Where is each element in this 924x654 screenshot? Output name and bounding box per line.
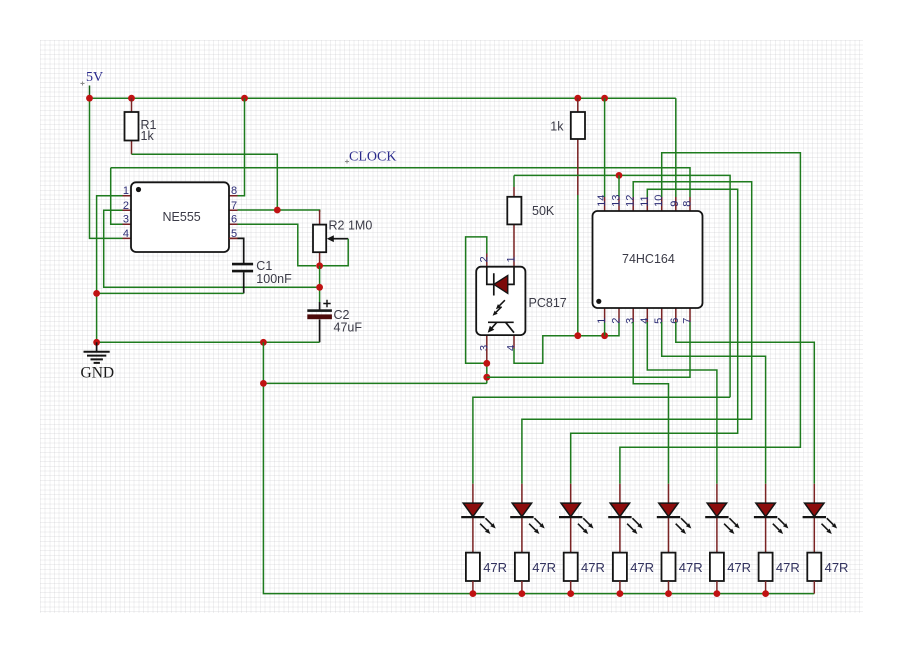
wire Q4 pin10 to LED4 column	[620, 153, 801, 484]
svg-text:47R: 47R	[776, 560, 800, 575]
wire 74HC164 pin7 GND	[487, 322, 690, 377]
svg-text:5: 5	[653, 318, 665, 324]
svg-text:1: 1	[506, 256, 518, 262]
node junction rail-R1	[128, 95, 135, 102]
node junction GND / bottom drop	[260, 339, 267, 346]
svg-text:1: 1	[123, 185, 129, 197]
svg-text:2: 2	[611, 318, 623, 324]
svg-text:47R: 47R	[825, 560, 849, 575]
resistor R9 47R	[662, 553, 703, 594]
svg-text:13: 13	[611, 195, 623, 207]
wire PC817 pin2 loop to emitter	[466, 237, 487, 363]
node junction input/pin1	[601, 332, 608, 339]
wire 5V top rail	[90, 97, 676, 99]
wire 50K top to 74HC164 pin13 and V1	[514, 175, 730, 397]
node junction return rail 3	[567, 590, 574, 597]
wire 74HC164 pin1 stub down	[604, 322, 606, 336]
capacitor C2 47uF electrolytic	[307, 300, 362, 343]
label CLOCK	[345, 150, 396, 165]
node junction pin3/74HC164 GND	[483, 374, 490, 381]
wire PC817 pin3 to GND net	[486, 349, 488, 364]
svg-text:47uF: 47uF	[334, 321, 363, 335]
wire 74HC164 pin14 up to rail	[604, 98, 606, 197]
shift register U3 74HC164	[593, 195, 703, 324]
optocoupler U2 PC817	[476, 254, 567, 352]
svg-text:3: 3	[123, 214, 129, 226]
node junction rail-5V	[86, 95, 93, 102]
node junction return rail 6	[714, 590, 721, 597]
wire R2 bottom to C2	[319, 266, 321, 302]
wire NE555 pin2 down-around to R2 bottom net	[104, 210, 320, 287]
op-amp U1 NE555 timer	[123, 182, 238, 252]
node junction return rail 4	[617, 590, 624, 597]
svg-text:50K: 50K	[532, 204, 555, 218]
capacitor C1 100nF	[229, 238, 292, 293]
LED D4	[608, 484, 643, 553]
svg-text:C1: C1	[256, 259, 272, 273]
LED D5	[657, 484, 692, 553]
svg-text:8: 8	[682, 201, 694, 207]
svg-text:47R: 47R	[727, 560, 751, 575]
node junction pin7/R1/R2	[274, 207, 281, 214]
node junction rail-NE555 pin8	[241, 95, 248, 102]
svg-text:11: 11	[639, 195, 651, 206]
svg-text:3: 3	[478, 345, 490, 351]
resistor R6 47R	[515, 553, 556, 594]
node junction rail-74HC164 pin14	[601, 95, 608, 102]
wire Q5 pin11 to LED3 column	[571, 189, 738, 484]
svg-text:7: 7	[682, 318, 694, 324]
wire NE555 pin3 to CLOCK	[111, 168, 123, 224]
svg-text:47R: 47R	[630, 560, 654, 575]
svg-text:100nF: 100nF	[256, 272, 292, 286]
wire GND drop to LED return rail	[263, 342, 814, 593]
wire Q2 pin5 to LED7 column	[662, 322, 766, 484]
resistor R12 47R	[807, 553, 848, 594]
wire Q3 pin6 to LED8 column	[676, 322, 815, 484]
wire NE555 pin7 to R2 top	[238, 210, 320, 212]
node junction return rail 5	[665, 590, 672, 597]
node junction return rail 1	[470, 590, 477, 597]
node junction return rail 2	[519, 590, 526, 597]
svg-text:1k: 1k	[550, 120, 564, 134]
svg-text:9: 9	[669, 201, 681, 207]
wire 5V left drop to NE555 pin4	[90, 98, 123, 238]
node junction return rail 7	[762, 590, 769, 597]
node junction GND vertical / C1 line	[93, 290, 100, 297]
svg-text:47R: 47R	[581, 560, 605, 575]
wire GND branch to PC817	[263, 382, 486, 384]
svg-text:47R: 47R	[483, 560, 507, 575]
LED D2	[510, 484, 545, 553]
wire 74HC164 pin13 stub up	[618, 175, 620, 197]
node junction rail-1k	[574, 95, 581, 102]
svg-text:47R: 47R	[679, 560, 703, 575]
svg-text:5V: 5V	[86, 70, 103, 85]
LED D7	[754, 484, 789, 553]
resistor R7 47R	[564, 553, 605, 594]
svg-text:1: 1	[596, 318, 608, 324]
svg-text:PC817: PC817	[529, 296, 567, 310]
wire GND to C1 bottom	[97, 292, 244, 294]
svg-text:12: 12	[625, 195, 637, 207]
svg-text:8: 8	[231, 185, 237, 197]
wire GND rail horizontal	[97, 341, 320, 343]
node junction pin3/pin2	[483, 360, 490, 367]
LED D1	[461, 484, 496, 553]
svg-text:10: 10	[653, 195, 665, 207]
svg-text:1k: 1k	[141, 129, 155, 143]
emission arrows of PC817	[493, 300, 505, 316]
ground symbol	[81, 342, 115, 381]
potentiometer R2 1M0	[313, 210, 372, 266]
svg-text:47R: 47R	[532, 560, 556, 575]
resistor R3 1k (top middle)	[550, 98, 585, 195]
svg-text:4: 4	[506, 345, 518, 351]
svg-text:6: 6	[231, 214, 237, 226]
wire CLOCK line to 74HC164 pin8	[111, 168, 690, 197]
svg-text:CLOCK: CLOCK	[349, 150, 396, 165]
node junction R2 bottom	[316, 262, 323, 269]
LED D3	[559, 484, 594, 553]
svg-text:4: 4	[123, 228, 129, 240]
svg-text:6: 6	[669, 318, 681, 324]
wire Q1 pin4 to LED6 column	[647, 322, 717, 484]
wire NE555 pin1 to GND vertical	[97, 196, 123, 343]
svg-text:NE555: NE555	[163, 210, 201, 224]
node junction GND branch	[260, 380, 267, 387]
wire Q7 net to LED1 column	[473, 397, 730, 484]
wire Q6 pin12 to LED2 column	[522, 182, 752, 484]
node junction input/1k	[574, 332, 581, 339]
wire Q0 pin3 to LED5 column	[633, 322, 668, 484]
wire 1k bottom to input net	[577, 195, 579, 336]
internal LED of PC817	[487, 267, 514, 296]
phototransistor of PC817	[488, 321, 514, 323]
svg-text:74HC164: 74HC164	[622, 252, 675, 266]
resistor R1 1k	[125, 98, 157, 154]
wire NE555 pin6 loop to R2 bottom	[238, 224, 317, 266]
svg-text:3: 3	[625, 318, 637, 324]
wire R1 bottom to pin7 net	[132, 154, 278, 210]
resistor R8 47R	[613, 553, 654, 594]
power terminal 5V	[81, 70, 104, 98]
svg-text:GND: GND	[81, 365, 115, 382]
resistor R4 50K	[507, 175, 555, 266]
svg-text:2: 2	[478, 256, 490, 262]
svg-text:14: 14	[596, 195, 608, 207]
svg-text:4: 4	[639, 318, 651, 324]
svg-text:2: 2	[123, 200, 129, 212]
wire rail to 74HC164 pin9	[675, 98, 677, 197]
svg-text:7: 7	[231, 200, 237, 212]
svg-text:R2 1M0: R2 1M0	[329, 219, 373, 233]
node junction pin2 net / C2	[316, 284, 323, 291]
LED D8	[803, 484, 838, 553]
wire PC817 pin4 to shift register inputs	[514, 322, 619, 363]
wire NE555 pin8 up to rail	[238, 98, 245, 196]
resistor R10 47R	[710, 553, 751, 594]
node junction GND symbol	[93, 339, 100, 346]
resistor R5 47R	[466, 553, 507, 594]
LED D6	[705, 484, 740, 553]
node junction pin13	[616, 172, 623, 179]
resistor R11 47R	[759, 553, 800, 594]
